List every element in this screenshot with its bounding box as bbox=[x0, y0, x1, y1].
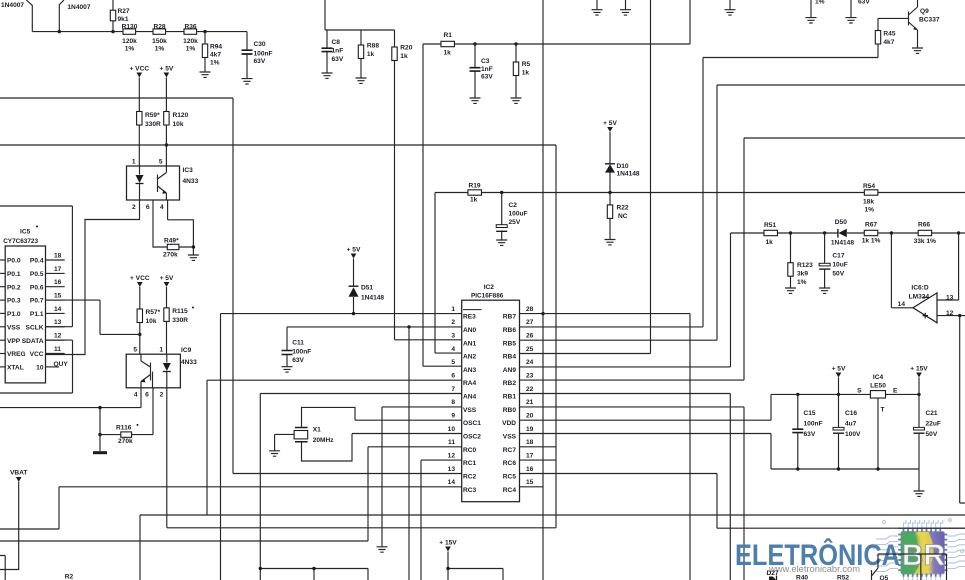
svg-text:20MHz: 20MHz bbox=[313, 437, 335, 444]
resistor R116 body bbox=[121, 432, 132, 437]
svg-text:63V: 63V bbox=[804, 431, 816, 438]
svg-text:1k: 1k bbox=[367, 51, 375, 58]
svg-text:27: 27 bbox=[526, 319, 534, 326]
wire net RB5 x=717 y=85 bbox=[520, 85, 965, 340]
svg-text:IC5: IC5 bbox=[20, 229, 31, 236]
svg-text:1N4148: 1N4148 bbox=[831, 239, 854, 246]
svg-text:28: 28 bbox=[526, 306, 534, 313]
ground top ground 3 bbox=[725, 10, 736, 15]
svg-text:+ 15V: + 15V bbox=[910, 366, 928, 373]
svg-text:1k: 1k bbox=[400, 53, 408, 60]
svg-text:1N4148: 1N4148 bbox=[361, 295, 384, 302]
svg-text:63V: 63V bbox=[254, 58, 266, 65]
wire net R1 y=44 bbox=[423, 0, 690, 44]
resistor R66 body bbox=[918, 230, 932, 235]
wire net +15V bottom drop bbox=[448, 552, 503, 580]
junction line-C17 bbox=[823, 231, 826, 234]
opto-isolator IC3 4N33 bbox=[127, 166, 180, 200]
svg-text:R94: R94 bbox=[210, 44, 222, 51]
svg-text:C15: C15 bbox=[804, 410, 816, 417]
svg-text:23: 23 bbox=[526, 372, 534, 379]
svg-text:12: 12 bbox=[946, 310, 954, 317]
svg-text:330R: 330R bbox=[172, 317, 188, 324]
svg-text:4: 4 bbox=[451, 346, 455, 353]
wire net IC9pin4 y=407.6 bbox=[0, 388, 141, 408]
svg-text:RB6: RB6 bbox=[503, 327, 517, 334]
ground VSS ground bbox=[377, 547, 388, 552]
ground C3 ground bbox=[470, 98, 481, 103]
svg-text:26: 26 bbox=[526, 333, 534, 340]
svg-text:6: 6 bbox=[146, 204, 150, 211]
crystal X1 20MHz bbox=[294, 428, 308, 442]
svg-text:R36: R36 bbox=[184, 24, 196, 31]
wire net pin14 output bbox=[891, 233, 913, 308]
resistor R22 bbox=[607, 193, 612, 240]
svg-text:P0.3: P0.3 bbox=[7, 298, 21, 305]
wire net RA4 x=207 bbox=[207, 380, 462, 515]
diode D10 1N4148 bbox=[605, 132, 615, 193]
svg-text:5: 5 bbox=[133, 347, 137, 354]
svg-text:13: 13 bbox=[946, 294, 954, 301]
wire net AN3 x=423 bbox=[423, 44, 462, 366]
svg-text:20: 20 bbox=[526, 412, 534, 419]
svg-text:RA4: RA4 bbox=[463, 380, 477, 387]
svg-text:9: 9 bbox=[451, 412, 455, 419]
svg-text:www.eletronicabr.com: www.eletronicabr.com bbox=[768, 564, 860, 574]
svg-text:RC7: RC7 bbox=[503, 447, 517, 454]
svg-text:P1.1: P1.1 bbox=[30, 311, 44, 318]
svg-text:12: 12 bbox=[54, 333, 62, 340]
svg-text:OSC2: OSC2 bbox=[463, 434, 481, 441]
svg-text:25: 25 bbox=[526, 346, 534, 353]
wire net RES drop x=220.5 bbox=[220, 314, 222, 580]
svg-text:R54: R54 bbox=[863, 183, 875, 190]
junction bus-R94 bbox=[203, 30, 206, 33]
junction R49-right bbox=[192, 245, 195, 248]
wire net RB4 x=650.5 bbox=[520, 0, 651, 354]
ground R94 ground bbox=[200, 72, 211, 77]
wire net R116 drop bbox=[99, 408, 101, 452]
wire net RB6-R45 x=703 bbox=[520, 58, 879, 327]
svg-text:16: 16 bbox=[526, 466, 534, 473]
capacitor C17 (polarized) bbox=[819, 233, 830, 288]
wire stub RC6 pin17 bbox=[520, 459, 557, 461]
svg-text:T: T bbox=[881, 407, 885, 414]
svg-text:6: 6 bbox=[451, 372, 455, 379]
resistor R49 body bbox=[167, 244, 179, 249]
svg-text:1: 1 bbox=[132, 159, 136, 166]
ground C2 ground bbox=[496, 240, 507, 245]
svg-text:R51: R51 bbox=[764, 222, 776, 229]
svg-text:1%: 1% bbox=[125, 46, 135, 53]
junction line-C2 bbox=[500, 191, 503, 194]
svg-text:1%: 1% bbox=[155, 46, 165, 53]
svg-text:1nF: 1nF bbox=[481, 66, 493, 73]
svg-text:P0.2: P0.2 bbox=[7, 284, 21, 291]
svg-text:19: 19 bbox=[526, 426, 534, 433]
svg-text:C21: C21 bbox=[926, 410, 938, 417]
svg-text:R1: R1 bbox=[444, 32, 453, 39]
svg-text:+ 5V: + 5V bbox=[832, 366, 846, 373]
wire net R19 line y=192.5 bbox=[435, 192, 965, 194]
wire stub gnd1 bbox=[596, 0, 598, 10]
svg-text:BR: BR bbox=[902, 539, 945, 572]
wire net C8 top y=30 bbox=[325, 0, 395, 30]
svg-text:7: 7 bbox=[451, 386, 455, 393]
svg-text:RB7: RB7 bbox=[503, 314, 517, 321]
svg-text:C8: C8 bbox=[332, 39, 341, 46]
svg-text:14: 14 bbox=[448, 479, 456, 486]
wire net corner stub bottom-left bbox=[0, 556, 5, 580]
ground C21 ground bbox=[914, 491, 925, 496]
resistor R57 bbox=[137, 287, 142, 354]
svg-text:10k: 10k bbox=[146, 318, 157, 325]
wire net R49 IC3 pins4-6 bbox=[153, 200, 193, 255]
IC5 left pin P0.2 bbox=[0, 286, 5, 288]
svg-text:1k: 1k bbox=[470, 197, 478, 204]
wire net RB0 x=744 down bbox=[520, 407, 745, 580]
svg-text:4k7: 4k7 bbox=[883, 39, 894, 46]
svg-text:P0.5: P0.5 bbox=[30, 271, 44, 278]
capacitor C21 (polarized) bbox=[914, 394, 925, 469]
svg-text:RB4: RB4 bbox=[503, 354, 517, 361]
wire net OSC2 bbox=[352, 433, 462, 435]
ground C11 ground bbox=[282, 367, 293, 372]
wire net IC9pin2 x=167 bbox=[166, 388, 168, 528]
svg-text:1k: 1k bbox=[766, 239, 774, 246]
ground R116 bar bbox=[93, 451, 107, 454]
svg-text:IC4: IC4 bbox=[873, 374, 884, 381]
svg-text:1: 1 bbox=[451, 306, 455, 313]
capacitor C11 bbox=[282, 327, 293, 367]
junction pin4line-R116 bbox=[98, 406, 101, 409]
svg-text:100nF: 100nF bbox=[804, 421, 823, 428]
svg-text:120k: 120k bbox=[183, 38, 198, 45]
svg-text:1k: 1k bbox=[444, 50, 452, 57]
capacitor C16 (polarized) bbox=[833, 394, 844, 469]
wire net gnd rail y=469 bbox=[771, 469, 919, 491]
svg-text:1N4007: 1N4007 bbox=[67, 4, 90, 11]
svg-text:63V: 63V bbox=[332, 56, 344, 63]
svg-text:P1.0: P1.0 bbox=[7, 311, 21, 318]
IC5 left pin VPP bbox=[0, 339, 5, 341]
ground top ground 1 bbox=[592, 10, 603, 15]
resistor R54 body bbox=[864, 190, 878, 195]
svg-text:R67: R67 bbox=[865, 221, 877, 228]
resistor R45 bbox=[875, 18, 880, 57]
svg-text:P0.7: P0.7 bbox=[30, 298, 44, 305]
IC5 left pin P1.0 bbox=[0, 312, 5, 314]
resistor R51 body bbox=[764, 230, 778, 235]
wire net RES y=313.6 bbox=[221, 313, 462, 315]
svg-text:1k: 1k bbox=[522, 70, 530, 77]
junction box-drop bbox=[312, 567, 315, 570]
power +5V D10 bbox=[603, 120, 617, 132]
svg-text:RB5: RB5 bbox=[503, 340, 517, 347]
wire net pin13 feedback bbox=[937, 233, 959, 300]
junction R1-C3 bbox=[473, 42, 476, 45]
svg-text:22uF: 22uF bbox=[926, 421, 941, 428]
wire net VBAT drop bbox=[0, 482, 19, 570]
svg-text:9k1: 9k1 bbox=[118, 16, 129, 23]
svg-text:XTAL: XTAL bbox=[7, 365, 24, 372]
svg-text:Q9: Q9 bbox=[920, 8, 929, 15]
svg-text:13: 13 bbox=[54, 319, 62, 326]
wire net R116-IC9pin6 bbox=[100, 388, 153, 435]
svg-text:P0.0: P0.0 bbox=[7, 258, 21, 265]
IC U IC5 CY7C63723 bbox=[5, 246, 45, 383]
svg-text:1%: 1% bbox=[865, 207, 875, 214]
svg-text:1%: 1% bbox=[186, 46, 196, 53]
wire net IC3pin2-IC5VCC bbox=[46, 200, 140, 355]
svg-text:4N33: 4N33 bbox=[183, 178, 199, 185]
ground R123 ground bbox=[785, 288, 796, 293]
svg-text:100nF: 100nF bbox=[254, 51, 273, 58]
ground top ground 2 bbox=[620, 10, 631, 15]
svg-text:+ 5V: + 5V bbox=[160, 275, 174, 282]
wire net VDD jog bbox=[520, 394, 772, 420]
wire bus y=515 bbox=[140, 515, 965, 580]
svg-text:3k9: 3k9 bbox=[797, 271, 808, 278]
svg-text:100V: 100V bbox=[845, 431, 861, 438]
svg-text:1nF: 1nF bbox=[332, 48, 344, 55]
wire net RC1 x=421 bbox=[421, 460, 462, 580]
svg-text:R19: R19 bbox=[469, 183, 481, 190]
junction line-out14 bbox=[890, 231, 893, 234]
resistor R36 body bbox=[184, 29, 197, 34]
svg-text:1%: 1% bbox=[210, 60, 220, 67]
svg-text:LM324: LM324 bbox=[909, 293, 930, 300]
resistor R1 body bbox=[441, 41, 455, 46]
svg-text:R22: R22 bbox=[617, 205, 629, 212]
opto-isolator IC9 4N33 bbox=[126, 354, 180, 388]
wire net RC5 y=473.5 x=717 y=528 bbox=[520, 474, 965, 529]
wire net AN2 x=435 bbox=[435, 193, 462, 354]
svg-text:100nF: 100nF bbox=[292, 349, 311, 356]
power +15V bottom bbox=[439, 540, 457, 552]
svg-text:+ 5V: + 5V bbox=[603, 120, 617, 127]
wire stub gnd5 bbox=[850, 0, 852, 18]
svg-text:VBAT: VBAT bbox=[10, 470, 27, 477]
resistor R19 body bbox=[468, 190, 482, 195]
junction line-D10 bbox=[608, 191, 611, 194]
wire net SDATA bbox=[0, 340, 73, 393]
svg-text:270k: 270k bbox=[118, 438, 133, 445]
svg-text:10uF: 10uF bbox=[832, 262, 847, 269]
svg-text:VSS: VSS bbox=[503, 434, 517, 441]
svg-text:1%: 1% bbox=[815, 0, 825, 6]
wire net bottom box y=568.5 bbox=[260, 569, 368, 580]
wire net RB1 x=730.3 bbox=[520, 394, 731, 580]
junction bus-R27 bbox=[111, 30, 114, 33]
junction bus-diode2 bbox=[58, 30, 61, 33]
resistor R5 bbox=[513, 44, 518, 98]
svg-text:14: 14 bbox=[898, 301, 906, 308]
op-amp IC6:D LM324 bbox=[913, 293, 937, 323]
wire stub gnd4 bbox=[810, 0, 812, 18]
diode D27 partial bbox=[769, 576, 777, 580]
wire stub gnd3 bbox=[729, 0, 731, 10]
IC5 left pin XTAL bbox=[0, 366, 5, 368]
wire stub gnd2 bbox=[625, 0, 627, 10]
svg-text:D51: D51 bbox=[361, 285, 373, 292]
junction D51-RES bbox=[352, 312, 355, 315]
resistor R59 bbox=[137, 78, 142, 167]
svg-text:VPP: VPP bbox=[7, 338, 21, 345]
svg-text:17: 17 bbox=[54, 266, 62, 273]
svg-text:QUY: QUY bbox=[54, 361, 69, 368]
svg-text:IC9: IC9 bbox=[181, 347, 192, 354]
svg-text:63V: 63V bbox=[292, 357, 304, 364]
IC5 left pin P0.3 bbox=[0, 299, 5, 301]
wire net P0.7 link bbox=[46, 300, 140, 334]
svg-text:5: 5 bbox=[159, 159, 163, 166]
svg-text:R45: R45 bbox=[883, 31, 895, 38]
wire net RC0 y=541 x=368 bbox=[0, 447, 462, 541]
junction R116-left bbox=[98, 433, 101, 436]
diode lead 1N4007 (second) bbox=[59, 0, 64, 32]
svg-text:12: 12 bbox=[448, 452, 456, 459]
svg-text:18: 18 bbox=[54, 252, 62, 259]
svg-text:VCC: VCC bbox=[30, 351, 44, 358]
wire net AN1 bbox=[395, 339, 462, 341]
svg-text:270k: 270k bbox=[163, 252, 178, 259]
junction rail2-C15 bbox=[796, 467, 799, 470]
junction pin12-drop bbox=[958, 314, 961, 317]
svg-text:AN2: AN2 bbox=[463, 354, 477, 361]
junction R120-longline bbox=[165, 143, 168, 146]
svg-text:R88: R88 bbox=[367, 43, 379, 50]
resistor R88 bbox=[358, 30, 363, 78]
svg-text:VDD: VDD bbox=[502, 420, 516, 427]
junction rail2-T bbox=[876, 467, 879, 470]
wire net RC3 y=486.8 bbox=[0, 487, 462, 529]
junction line-R123 bbox=[789, 231, 792, 234]
svg-text:120k: 120k bbox=[122, 38, 137, 45]
svg-text:63V: 63V bbox=[481, 74, 493, 81]
svg-text:C2: C2 bbox=[509, 202, 518, 209]
svg-text:LE50: LE50 bbox=[870, 383, 886, 390]
svg-text:NC: NC bbox=[618, 213, 628, 220]
power +5V (mid) bbox=[160, 275, 174, 287]
svg-text:RC5: RC5 bbox=[503, 474, 517, 481]
svg-text:15: 15 bbox=[526, 479, 534, 486]
svg-text:Q5: Q5 bbox=[880, 575, 889, 580]
junction rail2-C16 bbox=[837, 467, 840, 470]
svg-text:13: 13 bbox=[448, 466, 456, 473]
ground top ground 5 bbox=[846, 18, 857, 23]
wire net VSS-right bbox=[520, 434, 772, 470]
wire net RB2 x=744 y=138 bbox=[520, 138, 965, 380]
svg-text:4k7: 4k7 bbox=[210, 52, 221, 59]
wire net RC2 loop y=98 x=233 bbox=[0, 98, 462, 474]
svg-text:AN4: AN4 bbox=[463, 394, 477, 401]
resistor R20 bbox=[392, 30, 397, 340]
resistor R123 bbox=[788, 233, 793, 288]
wire net Q5 collector y=554 bbox=[878, 554, 947, 580]
svg-text:24: 24 bbox=[526, 359, 534, 366]
svg-text:P0.1: P0.1 bbox=[7, 271, 21, 278]
svg-text:AN1: AN1 bbox=[463, 340, 477, 347]
wire net X1 bottom bbox=[302, 434, 353, 462]
junction AN0-drop bbox=[407, 325, 410, 328]
svg-text:4N33: 4N33 bbox=[181, 359, 197, 366]
svg-text:1%: 1% bbox=[797, 279, 807, 286]
wire net x=543 full bbox=[542, 0, 544, 580]
wire net opamp line y=233 bbox=[731, 232, 965, 234]
wire y=528 over logo bbox=[898, 527, 965, 529]
svg-text:10: 10 bbox=[448, 426, 456, 433]
svg-text:VSS: VSS bbox=[463, 407, 477, 414]
ground R88 ground bbox=[356, 78, 367, 83]
svg-text:X1: X1 bbox=[313, 427, 321, 434]
svg-text:SDATA: SDATA bbox=[22, 338, 44, 345]
wire net OSC1 bbox=[355, 419, 462, 421]
svg-text:R115: R115 bbox=[172, 308, 188, 315]
svg-text:150k: 150k bbox=[152, 38, 167, 45]
svg-text:8: 8 bbox=[451, 399, 455, 406]
junction line-pin13 bbox=[957, 231, 960, 234]
svg-text:IC6:D: IC6:D bbox=[911, 285, 928, 292]
svg-text:+ 15V: + 15V bbox=[439, 540, 457, 547]
svg-text:3: 3 bbox=[451, 333, 455, 340]
IC5 left pin VREG bbox=[0, 353, 5, 355]
svg-text:R40: R40 bbox=[796, 575, 808, 580]
capacitor C8 bbox=[322, 30, 333, 73]
svg-text:C30: C30 bbox=[254, 41, 266, 48]
svg-text:AN9: AN9 bbox=[503, 367, 517, 374]
diode D51 1N4148 bbox=[349, 259, 359, 314]
junction rail-C15 bbox=[796, 393, 799, 396]
resistor R67 body bbox=[864, 230, 878, 235]
svg-text:+ 5V: + 5V bbox=[347, 247, 361, 254]
transistor Q5 partial bbox=[872, 554, 879, 580]
resistor R27 bbox=[110, 0, 115, 32]
IC5 left pin VSS bbox=[0, 326, 5, 328]
wire net SCLK bbox=[0, 206, 72, 327]
svg-text:63V: 63V bbox=[858, 0, 870, 6]
svg-text:S: S bbox=[857, 388, 862, 395]
wire net RB7 x=690 bbox=[520, 314, 691, 580]
ground R49 ground bbox=[188, 255, 199, 260]
svg-text:4u7: 4u7 bbox=[845, 421, 857, 428]
regulator IC4 LE50 bbox=[870, 391, 885, 398]
power +15V rail bbox=[910, 366, 928, 378]
svg-text:RB1: RB1 bbox=[503, 394, 517, 401]
ground R5 ground bbox=[511, 98, 522, 103]
svg-text:R20: R20 bbox=[400, 45, 412, 52]
power +5V (top) bbox=[160, 66, 174, 78]
junction x543-RB7 bbox=[541, 312, 544, 315]
svg-text:P0.6: P0.6 bbox=[30, 284, 44, 291]
junction rail-C16 bbox=[837, 393, 840, 396]
junction +15V-box bbox=[446, 567, 449, 570]
svg-text:1k 1%: 1k 1% bbox=[862, 237, 881, 244]
svg-text:11: 11 bbox=[448, 439, 455, 446]
wire net X1 case gnd bbox=[275, 434, 295, 450]
svg-text:R52: R52 bbox=[837, 575, 849, 580]
svg-text:RB0: RB0 bbox=[503, 407, 517, 414]
svg-text:11: 11 bbox=[54, 346, 61, 353]
wire net AN0 y=326.9 bbox=[287, 326, 462, 328]
power +VCC (top) bbox=[129, 66, 149, 78]
svg-text:+ 5V: + 5V bbox=[160, 66, 174, 73]
resistor R120 bbox=[164, 78, 169, 167]
svg-text:C3: C3 bbox=[481, 58, 490, 65]
wire stub RC7 pin18 bbox=[520, 446, 557, 448]
svg-text:RC1: RC1 bbox=[463, 460, 477, 467]
wire top bus y=31.6 bbox=[32, 31, 247, 33]
